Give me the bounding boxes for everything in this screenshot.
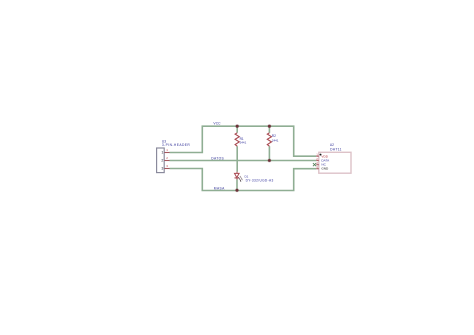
svg-text:VCC: VCC xyxy=(213,122,221,126)
svg-text:3: 3 xyxy=(166,164,168,168)
svg-text:2: 2 xyxy=(166,156,168,160)
svg-text:DY-332/UGD-A3: DY-332/UGD-A3 xyxy=(246,179,274,183)
svg-text:GND: GND xyxy=(321,166,329,170)
svg-text:DHT11: DHT11 xyxy=(330,147,342,151)
svg-text:2441: 2441 xyxy=(272,138,279,142)
svg-text:2: 2 xyxy=(161,159,163,163)
svg-text:DATOS: DATOS xyxy=(211,156,224,160)
svg-text:3: 3 xyxy=(161,167,163,171)
svg-text:3-PIN-HEADER: 3-PIN-HEADER xyxy=(162,143,191,147)
svg-text:MASA: MASA xyxy=(214,187,225,191)
svg-text:2441: 2441 xyxy=(240,141,247,145)
svg-text:1: 1 xyxy=(166,148,168,152)
svg-text:1: 1 xyxy=(161,151,163,155)
